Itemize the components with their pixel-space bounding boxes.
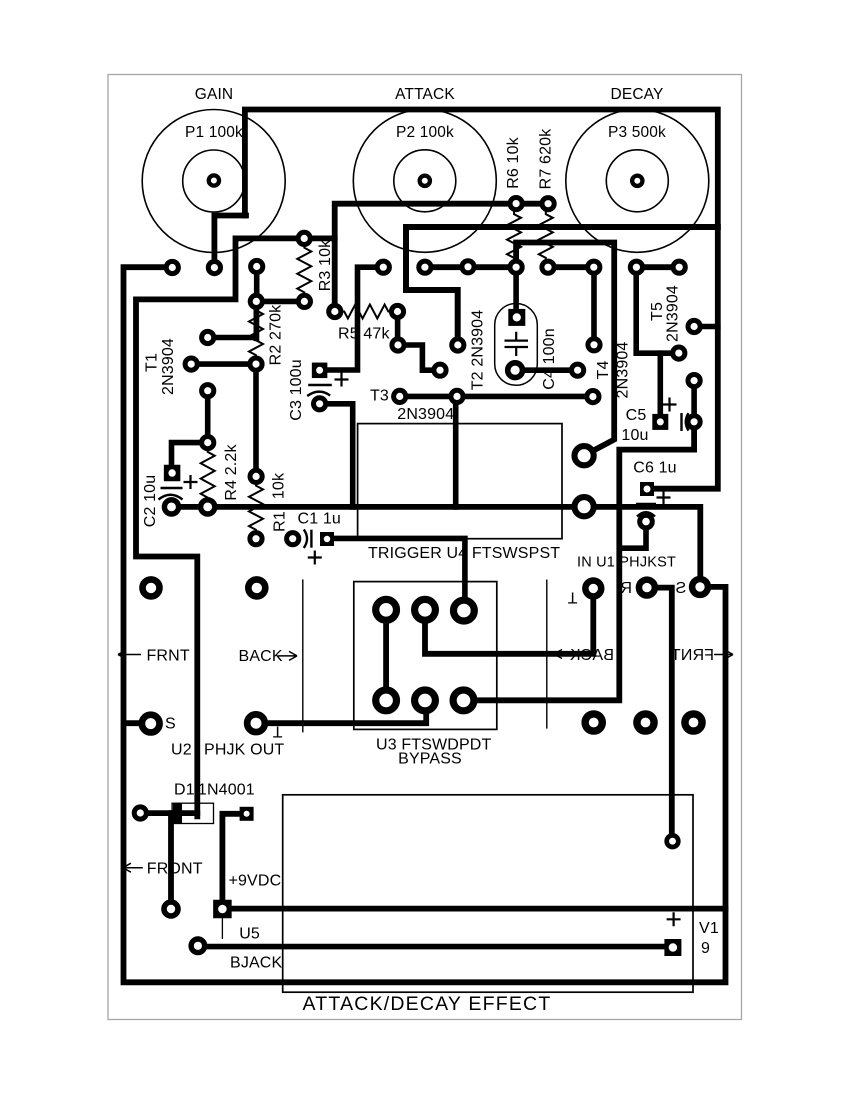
square pad D1 input (240, 807, 254, 821)
pad U4 terminal A (575, 446, 594, 465)
pad R4 bottom (201, 500, 215, 514)
svg-text:T: T (567, 589, 577, 606)
resistor R6 zigzag (507, 210, 521, 262)
square pad C6 positive (640, 482, 654, 496)
pad P1 lug2 (208, 262, 220, 274)
pad T2 base (434, 364, 446, 376)
pad R3 bottom (298, 295, 310, 307)
svg-text:2N3904: 2N3904 (160, 338, 177, 395)
svg-text:T3: T3 (370, 388, 389, 405)
pad C3 negative (314, 398, 326, 410)
resistor R3 zigzag (297, 244, 311, 297)
label T rotated U2 tip (272, 723, 282, 740)
footswitch U3 outline (354, 582, 497, 730)
svg-text:R5 47k: R5 47k (338, 326, 390, 343)
arrow FRNT left (118, 650, 141, 659)
svg-text:S: S (675, 580, 686, 597)
wire: C5- down around to U3 pad (464, 422, 695, 701)
wire: C3- to rail (320, 404, 353, 507)
svg-text:1N4001: 1N4001 (198, 782, 255, 799)
pad T5 emitter (688, 375, 700, 387)
pad P2 shaft (420, 176, 430, 186)
svg-text:T2 2N3904: T2 2N3904 (470, 310, 487, 391)
pad U4 terminal B (575, 497, 594, 516)
wire: C4- to T4 (515, 367, 578, 373)
svg-text:FRONT: FRONT (147, 861, 203, 878)
pad U3 switch 6 (453, 690, 474, 711)
pad U1 ring (639, 580, 655, 596)
label BACK mirrored with arrow (554, 647, 614, 664)
svg-text:P1 100k: P1 100k (185, 124, 243, 141)
wire: U3 pads left column (383, 610, 389, 701)
svg-text:U2: U2 (171, 742, 192, 759)
wire: D1 to pad below (168, 813, 174, 909)
wire: P1 wiper drop to lug (214, 216, 246, 268)
wire: U1 tip to U3 via back (425, 588, 593, 653)
resistor R7 zigzag (539, 210, 553, 262)
wire: T1 base bar (191, 361, 256, 367)
potentiometer P1 body outline (142, 110, 285, 253)
label S mirrored U1 sleeve (675, 580, 686, 597)
pad T5 base (673, 347, 685, 359)
pad R6 bottom (510, 261, 522, 273)
square pad +9VDC (213, 900, 232, 919)
pad P3 shaft (632, 176, 642, 186)
pad P2 lug3 (462, 261, 474, 273)
pad U2 sleeve (142, 715, 160, 733)
diode D1 body outline (172, 803, 213, 823)
pad P3 lug2 (630, 261, 642, 273)
svg-text:V1: V1 (699, 920, 719, 937)
potentiometer P3 body outline (566, 109, 709, 252)
pad R7 top (542, 198, 554, 210)
pad R5 left (329, 305, 341, 317)
svg-text:C3 100u: C3 100u (288, 359, 305, 421)
pad P2 lug2 (419, 261, 431, 273)
pad T3 base (394, 390, 406, 402)
pad battery minus (667, 835, 679, 847)
wire: P3 lug2 down to T5 branch (636, 267, 679, 353)
pad C1 negative (287, 533, 299, 545)
wire: +9VDC feed (222, 814, 246, 909)
square pad D1 cathode band (173, 803, 182, 823)
svg-text:S: S (165, 716, 176, 733)
svg-text:BYPASS: BYPASS (398, 751, 462, 768)
wire: R6 net jog to U4 pad A (516, 243, 614, 456)
svg-text:ATTACK/DECAY EFFECT: ATTACK/DECAY EFFECT (303, 993, 552, 1015)
resistor R5 zigzag (340, 305, 393, 319)
svg-text:R6 10k: R6 10k (505, 136, 522, 188)
svg-text:2N3904: 2N3904 (397, 406, 454, 423)
polarity + C1 (308, 551, 322, 565)
pad U1 mount 1 (585, 714, 602, 731)
pad U3 switch 5 (415, 690, 436, 711)
pad U3 switch 1 (376, 599, 397, 620)
wire: node R3 branch over to left rail down to D1 (136, 238, 335, 816)
svg-text:P2 100k: P2 100k (396, 124, 454, 141)
wire: decay mid rail y=226 with elbow down to T2 pad (406, 227, 718, 345)
battery V1 outline (283, 795, 693, 992)
board divider line right (546, 580, 548, 729)
capacitor C2 plates (161, 487, 183, 489)
svg-text:9: 9 (701, 940, 710, 957)
wire: R2 top stub (253, 301, 259, 338)
wire: T3 collector drop to rail (453, 396, 459, 507)
pad P3 lug1 (588, 261, 600, 273)
wire: T3 row y=396 (400, 394, 593, 400)
wire: R6/R7 top rail and drop to R5 left (335, 204, 548, 312)
pad P1 shaft (209, 175, 219, 185)
capacitor C5 plates (682, 413, 689, 431)
svg-text:BACK: BACK (239, 648, 283, 665)
square pad C4 positive (508, 309, 525, 326)
pad R1 bottom (250, 533, 262, 545)
pad R1 top (250, 470, 262, 482)
wire: C1 square to U3 pad C (326, 538, 465, 610)
wire: P1 lug3 down to R2 top (256, 267, 304, 302)
svg-text:2N3904: 2N3904 (615, 342, 632, 399)
wire: U2 tip to U3 (256, 700, 426, 723)
pad U1 mount 3 (685, 714, 702, 731)
svg-text:C6 1u: C6 1u (633, 460, 676, 477)
pad +9V junction (164, 902, 178, 916)
wire: pot bus bar P2 (425, 264, 516, 270)
pad U1 tip (585, 580, 601, 596)
wire: T5 collector to right edge (694, 324, 718, 330)
pad T4 emitter (587, 391, 599, 403)
svg-text:IN U1 PHJKST: IN U1 PHJKST (577, 555, 676, 571)
wire: C5+ feed (657, 353, 663, 415)
svg-text:T1: T1 (144, 353, 161, 372)
svg-text:R2 270k: R2 270k (268, 304, 285, 365)
svg-text:P3 500k: P3 500k (608, 124, 666, 141)
pad P1 lug3 (251, 260, 263, 272)
pad T2 emitter (392, 339, 404, 351)
svg-text:C2 10u: C2 10u (142, 475, 159, 528)
svg-text:PHJK OUT: PHJK OUT (204, 742, 284, 759)
wire: bar R7 to P3 lug1 (548, 264, 594, 270)
pad T4 base (572, 364, 584, 376)
pad D1 anode (134, 807, 146, 819)
pad U1 mount 2 (637, 714, 654, 731)
svg-text:C5: C5 (626, 407, 647, 424)
pad U2 back mount (248, 579, 265, 596)
footswitch U4 outline (358, 424, 562, 539)
pad U3 switch 4 (376, 690, 397, 711)
capacitor C3 plates (308, 384, 332, 386)
polarity + battery V1 (667, 912, 681, 926)
resistor R2 zigzag (249, 306, 263, 360)
svg-text:R7 620k: R7 620k (538, 128, 555, 189)
wire: T1 collector bar (208, 335, 256, 341)
wire: D1 anode bar (140, 810, 197, 816)
svg-text:R1: R1 (272, 511, 289, 532)
wire: P3 lug1 drop to T4 top (591, 267, 597, 345)
svg-text:U5: U5 (239, 926, 260, 943)
label R mirrored U1 ring (620, 580, 632, 597)
arrow BACK right (278, 651, 297, 660)
pad T3 collector (451, 390, 463, 402)
wire: supply rail y=507 over to U1 sleeve (172, 507, 700, 587)
pad T5 collector (688, 320, 700, 332)
svg-text:BACK: BACK (570, 647, 614, 664)
pad C6 negative (640, 515, 653, 528)
pad U2 tip (247, 714, 265, 732)
svg-text:ATTACK: ATTACK (395, 86, 455, 103)
wire: C2+ link to R4 top (172, 443, 208, 467)
arrow FRONT left (123, 863, 143, 872)
svg-text:10k: 10k (271, 472, 288, 499)
pad R7 bottom (542, 261, 554, 273)
pad R5 right (391, 305, 403, 317)
pad T1 collector (202, 331, 214, 343)
svg-text:GAIN: GAIN (195, 86, 234, 103)
potentiometer P2 body outline (353, 109, 496, 252)
pad U1 sleeve (692, 579, 708, 595)
wire: bar P3 lug2-lug3 (636, 264, 679, 270)
svg-text:FRNT: FRNT (671, 647, 714, 664)
wire: +9V rail to right (222, 906, 725, 912)
wire: C6- to down bus (619, 522, 646, 549)
square pad C2 positive (164, 465, 181, 482)
pad P2 lug1 (377, 261, 389, 273)
svg-text:R3 10k: R3 10k (317, 239, 334, 291)
label T upside down U1 tip (567, 589, 577, 606)
resistor R1 zigzag (249, 482, 263, 535)
wire: P1 wiper to top rail and right edge down to C6 (245, 110, 718, 489)
svg-text:FRNT: FRNT (147, 648, 190, 665)
wire: ground loop left/bottom/right (124, 267, 726, 982)
svg-text:T4: T4 (595, 361, 612, 380)
svg-text:BJACK: BJACK (230, 955, 282, 972)
svg-text:R: R (620, 580, 632, 597)
square pad C5 positive (652, 414, 668, 430)
pad P3 lug3 (673, 261, 685, 273)
svg-text:DECAY: DECAY (610, 86, 663, 103)
svg-text:TRIGGER U4 FTSWSPST: TRIGGER U4 FTSWSPST (368, 545, 560, 562)
pad P1 lug1 (166, 261, 178, 273)
pad T1 base (185, 358, 197, 370)
capacitor C4 plates (505, 332, 529, 356)
svg-text:C4 100n: C4 100n (541, 328, 558, 390)
pad T1 base2 (250, 358, 262, 370)
square pad C3 positive (312, 363, 328, 379)
pad T2 collector (452, 339, 464, 351)
label FRNT mirrored with arrow (671, 647, 733, 664)
wire: P2 lug1 to C3+ (326, 267, 383, 370)
polarity + C5 (663, 398, 677, 412)
svg-text:C1 1u: C1 1u (298, 511, 341, 528)
pad C2 negative (164, 500, 178, 514)
pad R4 top (202, 437, 214, 449)
capacitor C4 body outline (495, 304, 538, 386)
wire: U1 ring down to battery minus pad (647, 588, 672, 842)
pad T4 collector (588, 339, 600, 351)
pad U5 plug tip (191, 939, 205, 953)
capacitor C6 plates (636, 504, 656, 517)
square pad battery plus (664, 939, 681, 956)
pad U3 switch 2 (415, 599, 436, 620)
wire: R6 bottom to C4+ (513, 267, 519, 317)
pad T1 emitter (202, 385, 214, 397)
svg-text:R4 2.2k: R4 2.2k (223, 444, 240, 501)
wire: R5 right to T2 base (398, 312, 440, 371)
pad R2 top (250, 295, 262, 307)
polarity + C2 (184, 475, 198, 489)
U5 leader line (221, 918, 223, 939)
pad U3 switch 3 (454, 600, 475, 621)
svg-text:D1: D1 (174, 782, 195, 799)
pad R6 top (510, 198, 522, 210)
board divider line left (302, 579, 304, 732)
svg-text:+9VDC: +9VDC (229, 873, 282, 890)
pad U2 front mount (143, 579, 160, 596)
pad C4 negative (508, 363, 523, 378)
svg-text:2N3904: 2N3904 (665, 285, 682, 342)
pad C5 negative (688, 416, 700, 428)
square pad C1 positive (320, 532, 334, 546)
wire: U5 barrel jack to battery plus (198, 944, 673, 950)
wire: U2 sleeve to ground (124, 720, 149, 726)
capacitor C1 plates (310, 530, 312, 548)
svg-text:T: T (272, 723, 282, 740)
svg-text:10u: 10u (621, 427, 648, 444)
wire: R2 bottom down to R1 top (253, 364, 259, 476)
wire: T1 emitter to R4 (205, 391, 211, 443)
pad R3 top (298, 232, 310, 244)
wire: T5 emitter link (691, 381, 697, 422)
polarity + C6 (657, 491, 671, 505)
resistor R4 zigzag (201, 448, 215, 503)
drawing sheet border (108, 75, 742, 1020)
polarity + C3 (335, 373, 349, 387)
